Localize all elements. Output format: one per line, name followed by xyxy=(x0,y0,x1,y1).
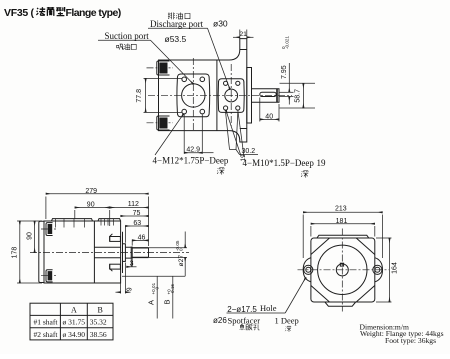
svg-text:ø30: ø30 xyxy=(213,19,228,29)
svg-text:63: 63 xyxy=(133,220,141,227)
svg-text:46: 46 xyxy=(138,234,146,241)
svg-text:A: A xyxy=(71,306,77,315)
svg-text:38.56: 38.56 xyxy=(90,330,107,339)
svg-text:4−M10*1.5P−Deep: 4−M10*1.5P−Deep xyxy=(243,158,315,168)
svg-text:ø26: ø26 xyxy=(213,316,227,325)
svg-text:#1 shaft: #1 shaft xyxy=(34,318,59,327)
svg-text:3: 3 xyxy=(130,260,134,267)
svg-text:181: 181 xyxy=(336,218,348,225)
svg-text:58.7: 58.7 xyxy=(295,89,302,103)
svg-text:1 Deep: 1 Deep xyxy=(275,316,299,326)
svg-text:B: B xyxy=(98,306,103,315)
svg-text:ø53.5: ø53.5 xyxy=(165,34,187,44)
svg-text:-0.16: -0.16 xyxy=(170,284,175,295)
svg-text:9: 9 xyxy=(126,287,133,291)
svg-text:#2 shaft: #2 shaft xyxy=(34,330,59,339)
svg-text:42.9: 42.9 xyxy=(186,147,200,154)
svg-text:279: 279 xyxy=(85,188,97,195)
svg-text:40: 40 xyxy=(265,113,273,120)
svg-text:Foot type: 36kgs: Foot type: 36kgs xyxy=(385,336,436,345)
svg-text:213: 213 xyxy=(335,206,347,213)
svg-text:178: 178 xyxy=(12,247,19,259)
svg-text:-0.021: -0.021 xyxy=(284,36,289,49)
svg-text:ø 31.75: ø 31.75 xyxy=(63,318,86,327)
svg-text:ø 34.90: ø 34.90 xyxy=(63,330,86,339)
svg-text:ø27: ø27 xyxy=(178,255,185,267)
svg-text:21: 21 xyxy=(239,31,247,38)
svg-text:-0: -0 xyxy=(154,286,159,291)
svg-text:77.8: 77.8 xyxy=(136,89,143,103)
svg-text:35.32: 35.32 xyxy=(90,318,107,327)
svg-text:Spotfacer: Spotfacer xyxy=(228,315,261,325)
svg-text:75: 75 xyxy=(133,210,141,217)
svg-text:30.2: 30.2 xyxy=(241,148,255,155)
svg-text:4−M12*1.75P−Deep: 4−M12*1.75P−Deep xyxy=(153,156,229,166)
svg-text:VF35 (: VF35 ( xyxy=(4,7,35,19)
svg-text:7.95: 7.95 xyxy=(281,65,288,79)
svg-text:-0.05: -0.05 xyxy=(175,240,180,251)
svg-text:90: 90 xyxy=(87,202,95,209)
svg-text:Flange type): Flange type) xyxy=(66,7,121,19)
svg-text:112: 112 xyxy=(128,201,139,208)
svg-text:90: 90 xyxy=(27,232,34,240)
svg-text:Hole: Hole xyxy=(260,303,277,313)
svg-text:A: A xyxy=(147,300,156,305)
svg-text:Discharge port: Discharge port xyxy=(150,19,204,29)
svg-text:164: 164 xyxy=(392,262,399,274)
svg-text:B: B xyxy=(163,299,172,304)
svg-text:Suction port: Suction port xyxy=(105,31,150,41)
svg-text:19: 19 xyxy=(317,158,327,168)
svg-text:2−ø17.5: 2−ø17.5 xyxy=(227,305,257,314)
